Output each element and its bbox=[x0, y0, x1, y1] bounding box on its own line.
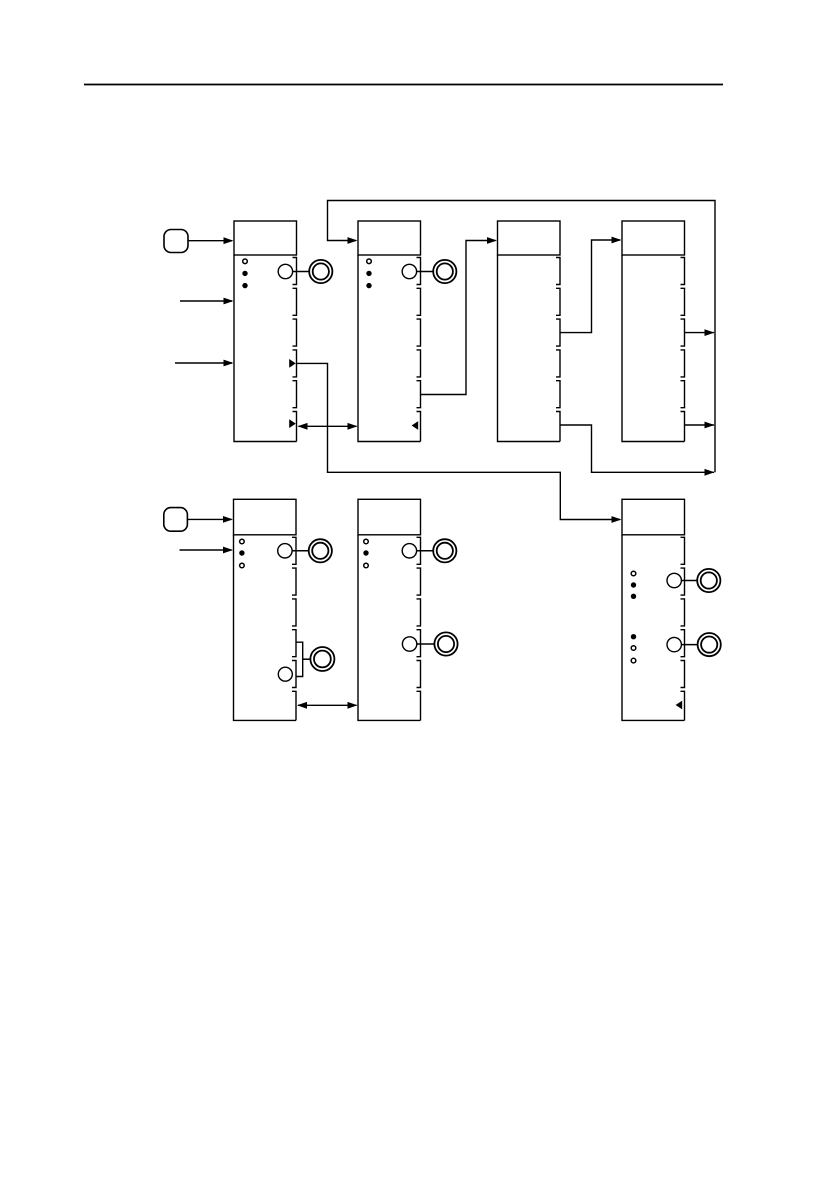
U6 connector stub wire bbox=[417, 550, 434, 552]
U7 upper connector plug (double ring) bbox=[697, 569, 720, 592]
U2 connector plug (double ring) bbox=[433, 260, 456, 283]
U5 auxiliary stub wire bbox=[303, 658, 311, 660]
module U7 body outline bbox=[622, 499, 685, 535]
U2 connector socket bbox=[402, 264, 416, 278]
wire S1 to unit U1 bbox=[188, 240, 232, 242]
U1 output port marker (bottom) bbox=[289, 419, 296, 428]
input arrow into U1 (lower) bbox=[175, 362, 232, 364]
header rule bbox=[84, 84, 723, 86]
U1 connector stub wire bbox=[293, 271, 310, 273]
module U2 right-edge connector brackets bbox=[417, 258, 421, 442]
module U4 body outline bbox=[622, 221, 685, 255]
module U3 body outline bbox=[498, 221, 561, 255]
wire U4 output upper to bus bbox=[685, 332, 715, 334]
U7 lower connector stub wire bbox=[681, 644, 697, 646]
module U7 right-edge connector brackets bbox=[681, 537, 685, 720]
U2 connector stub wire bbox=[417, 271, 434, 273]
double-headed wire U1 to U2 bbox=[299, 425, 357, 427]
U5 auxiliary connector block bbox=[296, 642, 303, 676]
U1 connector socket bbox=[278, 264, 292, 278]
module U1 body outline bbox=[234, 221, 297, 255]
U2 input port marker (bottom) bbox=[412, 421, 419, 430]
U6 lower connector stub wire bbox=[417, 643, 435, 645]
U5 connector plug (double ring) bbox=[309, 539, 332, 562]
U7 input port marker (bottom) bbox=[676, 701, 683, 710]
wire S2 to unit U5 bbox=[187, 518, 231, 520]
module U3 right-edge connector brackets bbox=[556, 258, 560, 442]
wire U1 mid output down and across to U7 bbox=[297, 363, 621, 519]
U1 output port marker (mid) bbox=[289, 359, 296, 368]
double-headed wire U5 to U6 bbox=[298, 704, 357, 706]
U7 lower connector socket bbox=[667, 637, 681, 651]
U2 indicator LEDs bbox=[367, 259, 372, 264]
module U5 body outline bbox=[234, 499, 297, 535]
U6 indicator LEDs bbox=[364, 539, 369, 544]
U7 lower connector plug (double ring) bbox=[698, 633, 721, 656]
U5 connector stub wire bbox=[292, 550, 309, 552]
U5 connector socket bbox=[278, 544, 292, 558]
module U6 right-edge connector brackets bbox=[417, 537, 421, 720]
U6 lower connector plug (double ring) bbox=[434, 632, 457, 655]
wire U4 output lower to bus bbox=[685, 424, 715, 426]
U5 indicator LEDs bbox=[240, 539, 245, 544]
start node S2 bbox=[164, 508, 188, 532]
module U4 right-edge connector brackets bbox=[681, 258, 685, 442]
input arrow into U1 (upper) bbox=[180, 300, 232, 302]
wire U3 to U4 bbox=[560, 240, 620, 333]
wire U3 lower output to bus bbox=[560, 425, 714, 472]
module U6 body outline bbox=[358, 499, 421, 535]
U5 auxiliary socket bbox=[278, 667, 292, 681]
module U2 body outline bbox=[358, 221, 421, 255]
module U5 right-edge connector brackets bbox=[292, 537, 296, 720]
feedback bus: vertical right trunk + top run into U2 bbox=[328, 201, 716, 473]
U6 connector socket bbox=[402, 544, 416, 558]
module U1 right-edge connector brackets bbox=[293, 258, 297, 442]
input arrow into U5 bbox=[180, 549, 232, 551]
U7 upper indicator LEDs bbox=[631, 571, 636, 576]
start node S1 bbox=[164, 230, 188, 253]
U6 lower connector socket bbox=[402, 637, 416, 651]
wire U2 to U3 bbox=[421, 241, 496, 395]
U1 indicator LEDs bbox=[243, 259, 248, 264]
U6 connector plug (double ring) bbox=[433, 539, 456, 562]
U7 lower indicator LEDs bbox=[631, 634, 636, 639]
U7 upper connector stub wire bbox=[681, 580, 697, 582]
U7 upper connector socket bbox=[667, 573, 681, 587]
U1 connector plug (double ring) bbox=[309, 260, 332, 283]
U5 auxiliary plug (double ring) bbox=[310, 647, 334, 671]
